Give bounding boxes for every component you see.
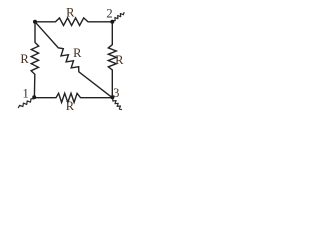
svg-text:R: R bbox=[115, 53, 124, 67]
svg-text:R: R bbox=[66, 99, 75, 112]
svg-text:R: R bbox=[20, 52, 29, 66]
svg-text:2: 2 bbox=[106, 6, 112, 20]
svg-text:3: 3 bbox=[113, 86, 119, 100]
svg-text:R: R bbox=[73, 46, 82, 60]
svg-text:1: 1 bbox=[22, 87, 28, 101]
svg-text:R: R bbox=[66, 6, 75, 20]
